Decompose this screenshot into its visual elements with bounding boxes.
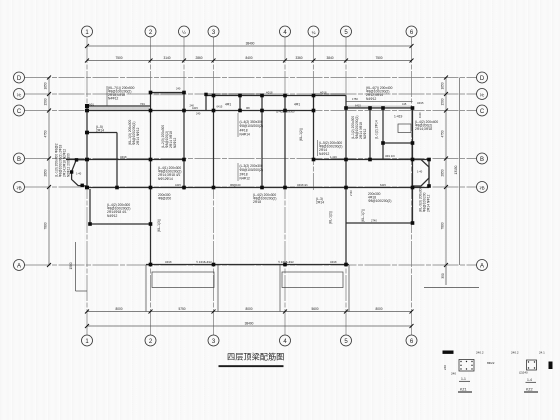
svg-text:3360: 3360 (295, 56, 302, 60)
svg-text:240.2: 240.2 (511, 351, 519, 355)
svg-text:1500: 1500 (441, 98, 445, 105)
svg-text:7Φ1: 7Φ1 (140, 102, 146, 106)
svg-text:6415: 6415 (355, 104, 361, 108)
svg-text:7800: 7800 (44, 222, 48, 229)
svg-text:5750: 5750 (178, 307, 185, 311)
svg-text:A: A (480, 263, 484, 269)
svg-text:8000: 8000 (245, 307, 252, 311)
svg-text:13150: 13150 (454, 165, 458, 174)
svg-text:Φ8: Φ8 (246, 106, 250, 110)
svg-text:C: C (480, 109, 485, 115)
svg-text:2Φ14: 2Φ14 (96, 129, 104, 133)
svg-text:N4Φ12: N4Φ12 (108, 97, 119, 101)
svg-text:4415: 4415 (192, 106, 198, 110)
svg-text:8400: 8400 (245, 56, 252, 60)
svg-text:4Φ18: 4Φ18 (165, 260, 172, 264)
svg-text:N4Φ12: N4Φ12 (319, 152, 330, 156)
svg-text:1500: 1500 (44, 98, 48, 105)
svg-text:350: 350 (441, 273, 445, 279)
svg-text:4Φ18: 4Φ18 (266, 91, 273, 95)
svg-text:3840: 3840 (326, 56, 333, 60)
svg-text:8Φ22: 8Φ22 (487, 361, 495, 365)
svg-text:240: 240 (451, 372, 456, 376)
svg-text:4Φ15: 4Φ15 (417, 101, 424, 105)
svg-text:240: 240 (176, 87, 181, 91)
svg-text:2Φ18: 2Φ18 (253, 200, 261, 204)
svg-text:N2Φ12: N2Φ12 (173, 137, 177, 148)
svg-text:N4Φ12: N4Φ12 (366, 97, 377, 101)
svg-text:(KL-1(3)): (KL-1(3)) (157, 219, 161, 232)
svg-text:B: B (17, 157, 21, 163)
svg-text:4: 4 (283, 30, 287, 36)
svg-text:2Φ14;3Φ18: 2Φ14;3Φ18 (415, 127, 432, 131)
svg-text:4Φ1: 4Φ1 (294, 102, 300, 106)
svg-text:4750: 4750 (44, 130, 48, 137)
svg-text:1500: 1500 (69, 262, 73, 269)
svg-text:3: 3 (212, 30, 216, 36)
svg-text:C: C (17, 109, 22, 115)
svg-text:2850: 2850 (441, 169, 445, 176)
svg-text:2Φ14 NΦ12: 2Φ14 NΦ12 (427, 194, 431, 212)
svg-text:2740: 2740 (349, 190, 353, 196)
svg-text:KZ2: KZ2 (526, 388, 533, 392)
svg-text:1650: 1650 (441, 82, 445, 89)
svg-text:2Φ14 NΦ12: 2Φ14 NΦ12 (136, 127, 140, 145)
svg-text:(L-1(2) 2Φ14: (L-1(2) 2Φ14 (375, 120, 379, 139)
svg-text:6415: 6415 (380, 183, 386, 187)
svg-text:4Φ18: 4Φ18 (320, 91, 327, 95)
svg-text:240: 240 (196, 111, 201, 115)
svg-text:7500: 7500 (115, 56, 122, 60)
svg-text:6Φ1: 6Φ1 (89, 103, 95, 107)
svg-text:38400: 38400 (246, 41, 255, 45)
svg-text:8000: 8000 (375, 307, 382, 311)
svg-text:N4Φ12: N4Φ12 (240, 177, 251, 181)
svg-text:N2Φ12: N2Φ12 (363, 128, 367, 139)
svg-text:7500: 7500 (375, 56, 382, 60)
svg-text:5: 5 (344, 339, 348, 345)
svg-text:Φ8@100/200(2): Φ8@100/200(2) (368, 199, 391, 203)
svg-text:1: 1 (85, 339, 89, 345)
svg-text:1-40: 1-40 (417, 170, 423, 174)
svg-text:½: ½ (182, 29, 186, 35)
svg-text:N4Φ12: N4Φ12 (107, 214, 118, 218)
svg-text:N2Φ12 200x300: N2Φ12 200x300 (67, 153, 71, 177)
svg-text:2: 2 (149, 339, 153, 345)
svg-text:(KL-1(2)): (KL-1(2)) (329, 211, 333, 224)
svg-text:(2)240: (2)240 (519, 371, 528, 375)
svg-text:2740: 2740 (371, 219, 377, 223)
svg-text:1-40: 1-40 (76, 172, 82, 176)
svg-text:2Φ14: 2Φ14 (316, 201, 324, 205)
svg-text:4Φ18 4/1: 4Φ18 4/1 (297, 183, 308, 187)
svg-text:4: 4 (283, 339, 287, 345)
svg-text:4Φ18: 4Φ18 (120, 155, 127, 159)
svg-text:4Φ1 4/C: 4Φ1 4/C (385, 154, 395, 158)
svg-text:2850: 2850 (44, 169, 48, 176)
svg-text:3: 3 (212, 339, 216, 345)
svg-text:D: D (17, 76, 22, 82)
svg-text:B: B (480, 157, 484, 163)
svg-text:4415: 4415 (175, 183, 181, 187)
svg-text:4Φ1: 4Φ1 (225, 102, 231, 106)
svg-text:Φ8@100: Φ8@100 (230, 183, 241, 187)
svg-text:415: 415 (402, 102, 407, 106)
svg-text:7800: 7800 (441, 222, 445, 229)
svg-text:5: 5 (344, 30, 348, 36)
svg-text:1750: 1750 (352, 97, 358, 101)
svg-text:3140: 3140 (163, 56, 170, 60)
svg-text:¹⁄B: ¹⁄B (16, 185, 21, 190)
svg-text:½ 4Φ18+Φ22: ½ 4Φ18+Φ22 (196, 260, 212, 264)
svg-text:1650: 1650 (44, 82, 48, 89)
svg-text:6415: 6415 (217, 105, 223, 109)
svg-text:5600: 5600 (311, 307, 318, 311)
svg-text:A: A (17, 263, 21, 269)
svg-text:N4Φ14: N4Φ14 (240, 133, 251, 137)
svg-text:8000: 8000 (115, 307, 122, 311)
svg-text:¼: ¼ (312, 30, 316, 35)
svg-text:240.2: 240.2 (476, 351, 484, 355)
svg-text:1-1: 1-1 (461, 377, 466, 381)
svg-text:240: 240 (443, 365, 447, 370)
svg-text:2: 2 (149, 30, 153, 36)
svg-text:(KL-1(2)): (KL-1(2)) (299, 128, 303, 141)
svg-text:KZ1: KZ1 (460, 388, 467, 392)
svg-text:1-419: 1-419 (394, 115, 403, 119)
svg-text:(KL-1(7)): (KL-1(7)) (361, 209, 365, 222)
svg-text:Φ8@200: Φ8@200 (158, 197, 171, 201)
svg-text:NΦ12Φ14: NΦ12Φ14 (158, 177, 173, 181)
svg-text:24.1: 24.1 (539, 351, 545, 355)
svg-text:1100: 1100 (418, 112, 422, 118)
svg-text:38400: 38400 (245, 321, 254, 325)
svg-text:¹⁄B: ¹⁄B (479, 185, 484, 190)
svg-text:¹⁄c: ¹⁄c (17, 92, 22, 97)
svg-text:½ 4Φ18+Φ22: ½ 4Φ18+Φ22 (278, 260, 294, 264)
svg-text:4Φ18: 4Φ18 (330, 260, 337, 264)
svg-text:4750: 4750 (441, 130, 445, 137)
svg-text:6: 6 (410, 339, 414, 345)
svg-text:1-4: 1-4 (527, 378, 532, 382)
svg-text:¹⁄c: ¹⁄c (480, 92, 485, 97)
svg-text:2860: 2860 (195, 56, 202, 60)
svg-text:1-419: 1-419 (330, 155, 337, 159)
svg-text:D: D (480, 76, 485, 82)
svg-text:6: 6 (410, 30, 414, 36)
svg-text:(L-4(2) 350x300: (L-4(2) 350x300 (276, 109, 295, 113)
svg-text:四层顶梁配筋图: 四层顶梁配筋图 (227, 351, 284, 361)
svg-text:1: 1 (85, 30, 89, 36)
